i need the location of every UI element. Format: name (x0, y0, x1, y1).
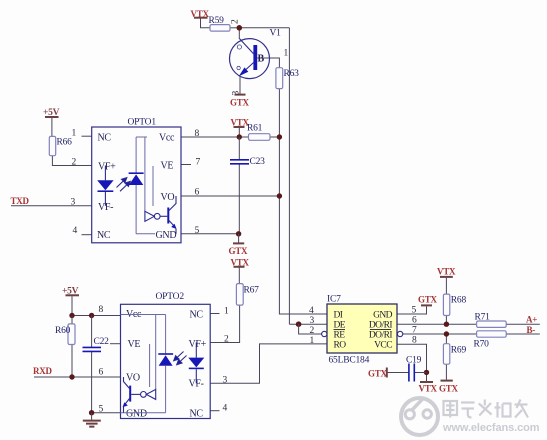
wire IC7 pin6 DO/RI to R71 (397, 323, 477, 325)
svg-text:6: 6 (195, 188, 200, 198)
wire long vertical R59-node down to IC7 DE row (288, 28, 290, 324)
svg-text:6: 6 (99, 368, 104, 378)
wire C23 top (238, 137, 240, 159)
svg-text:DO/RI: DO/RI (369, 321, 392, 331)
wire TXD to OPTO1 pin3 VF- (11, 205, 92, 207)
wire OPTO2 pin5 GND line (92, 412, 121, 414)
svg-text:7: 7 (196, 158, 201, 168)
svg-text:3: 3 (71, 198, 76, 208)
svg-text:Vcc: Vcc (159, 133, 175, 144)
wire V1 emitter to GTX rail (239, 77, 241, 94)
wire R71 right to A+ (506, 323, 540, 325)
wire R68 bottom to pin6 line (445, 316, 447, 325)
resistor R67 (236, 284, 259, 306)
svg-text:C23: C23 (250, 157, 266, 167)
svg-text:7: 7 (412, 326, 417, 336)
wire OPTO1 pin1 stub (82, 135, 92, 137)
svg-text:6: 6 (412, 316, 417, 326)
wire into IC7 pin3 DE (289, 323, 327, 325)
wire V1 base to R63 top (257, 58, 279, 68)
svg-text:GTX: GTX (230, 98, 250, 108)
svg-text:R66: R66 (57, 138, 73, 148)
svg-text:VE: VE (128, 339, 141, 350)
capacitor C23 (230, 157, 265, 167)
power rail VTX top-left (191, 9, 211, 28)
svg-text:A+: A+ (526, 315, 537, 325)
power rail GTX at C19 (368, 368, 409, 379)
power rail VTX above R68 (437, 267, 456, 295)
power rail +5V bottom-left (62, 287, 79, 316)
wire R61 right to R63 net (270, 136, 279, 138)
junction R61 right (277, 134, 282, 139)
svg-text:OPTO1: OPTO1 (128, 118, 157, 128)
wire R60 bottom to RXD line (71, 345, 73, 378)
svg-text:DI: DI (334, 311, 343, 321)
svg-text:VE: VE (161, 161, 174, 172)
wire RE branch to IC7 pin2 (299, 324, 322, 334)
OPTO2 pin numbers (99, 305, 230, 415)
wire IC7 pin8 VCC down to VTX rail (397, 344, 438, 393)
svg-text:8: 8 (412, 336, 417, 346)
svg-text:DO/RI: DO/RI (369, 331, 392, 341)
OPTO1 LED (97, 166, 113, 206)
svg-text:VTX: VTX (437, 267, 456, 277)
svg-text:5: 5 (412, 306, 417, 316)
OPTO2 LED (188, 343, 204, 384)
svg-text:NC: NC (98, 133, 112, 144)
svg-text:5: 5 (195, 226, 200, 236)
svg-text:2: 2 (72, 158, 77, 168)
resistor R69 (443, 344, 466, 365)
OPTO2 light arrows (174, 352, 187, 365)
svg-text:C19: C19 (406, 356, 422, 366)
svg-text:NC: NC (190, 310, 204, 321)
junction +5V/R60 (69, 313, 74, 318)
svg-text:VF+: VF+ (98, 162, 116, 173)
OPTO1 output buffer (145, 137, 160, 221)
junction R68/pin6 (444, 322, 449, 327)
svg-text:GTX: GTX (368, 369, 388, 379)
svg-text:RE: RE (334, 331, 346, 341)
svg-text:NC: NC (190, 409, 204, 420)
svg-text:RO: RO (334, 341, 347, 351)
svg-text:1: 1 (310, 336, 315, 346)
resistor R61 (247, 124, 270, 141)
svg-text:GTX: GTX (418, 295, 438, 305)
svg-text:8: 8 (99, 305, 104, 315)
optocoupler OPTO1 (92, 118, 181, 243)
svg-text:R68: R68 (451, 296, 467, 306)
wire +5V node to OPTO2 pin8 Vcc (72, 315, 121, 317)
svg-text:2: 2 (231, 19, 241, 24)
svg-text:4: 4 (309, 306, 314, 316)
resistor R71 (475, 313, 507, 328)
wire IC7 pin5 GND to GTX rail (397, 295, 438, 315)
svg-text:TXD: TXD (11, 196, 30, 206)
wire R70 right to B- (506, 333, 540, 335)
svg-text:B-: B- (527, 325, 536, 335)
WATERMARK (401, 398, 540, 436)
svg-text:IC7: IC7 (327, 295, 341, 305)
svg-text:R71: R71 (475, 313, 491, 323)
wire OPTO1 pin5 GND to GTX node (181, 233, 239, 235)
svg-text:GND: GND (373, 311, 393, 321)
wire VO node down and into IC7 pin4 DI (279, 196, 327, 314)
svg-text:OPTO2: OPTO2 (156, 292, 185, 302)
junction at VTX node (237, 134, 242, 139)
svg-text:R67: R67 (244, 286, 260, 296)
IC U7 65LBC184 (309, 295, 417, 366)
wire IC7 pin1 RO to OPTO2 pin3 VF- (210, 344, 327, 383)
svg-text:VCC: VCC (374, 341, 392, 351)
power rail VTX mid feeding OPTO1 Vcc node (231, 118, 250, 138)
svg-text:R61: R61 (247, 124, 263, 134)
svg-text:2: 2 (310, 326, 315, 336)
svg-text:1: 1 (224, 307, 229, 317)
wire collector drop V1 (238, 28, 240, 39)
resistor R70 (474, 331, 507, 350)
junction DE/RE tie (296, 321, 302, 327)
wire node2 to top of long vertical (239, 27, 289, 29)
OPTO1 light arrows (117, 178, 131, 192)
power rail GTX under V1 (230, 91, 250, 108)
svg-text:R70: R70 (474, 340, 490, 350)
wire R60 top (71, 316, 73, 324)
svg-text:VO: VO (161, 192, 175, 203)
OPTO1 photodiode (129, 137, 155, 234)
wire RXD to OPTO2 pin6 VO (34, 376, 121, 378)
svg-text:VF+: VF+ (189, 339, 207, 350)
capacitor C22 (83, 337, 110, 351)
wire OPTO2 pin1 stub (210, 313, 219, 315)
junction VO node (277, 193, 282, 198)
wire C23 bottom down to OPTO1 GND node (238, 164, 240, 234)
svg-text:C22: C22 (94, 337, 110, 347)
svg-text:GND: GND (126, 409, 147, 420)
wire R69 bottom to GTX rail (439, 364, 459, 393)
OPTO1 output transistor (160, 196, 176, 234)
wire R61 node down to VO node (278, 137, 280, 196)
wire OPTO1 pin6 VO to vertical net (181, 195, 279, 197)
power rail +5V top-left (43, 108, 60, 136)
wire OPTO1 pin8 Vcc to VTX node (181, 136, 239, 138)
wire C22 bottom to GND line (91, 352, 93, 413)
svg-text:R69: R69 (451, 346, 467, 356)
svg-text:VTX: VTX (419, 384, 438, 394)
svg-text:3: 3 (231, 91, 241, 96)
svg-text:GTX: GTX (439, 384, 459, 394)
wire IC7 pin7 to R70 (403, 333, 477, 335)
junction C22 top branch (89, 313, 94, 318)
svg-text:3: 3 (223, 376, 228, 386)
svg-text:RXD: RXD (33, 366, 52, 376)
OPTO1 pin numbers (71, 129, 201, 237)
svg-text:VTX: VTX (191, 9, 210, 19)
svg-text:NC: NC (97, 230, 111, 241)
svg-text:1: 1 (72, 129, 77, 139)
svg-text:65LBC184: 65LBC184 (329, 356, 370, 366)
svg-text:4: 4 (73, 226, 78, 236)
OPTO2 photodiode (121, 315, 174, 413)
wire R67 bottom to OPTO2 pin2 VF+ (210, 305, 239, 342)
wire OPTO2 pin7 VE stub (110, 343, 121, 345)
capacitor C19 (406, 356, 422, 382)
svg-text:5: 5 (99, 405, 104, 415)
junction C22/GND (89, 410, 94, 415)
svg-text:R59: R59 (209, 16, 225, 26)
resistor R66 (49, 136, 72, 155)
OPTO2 input buffer (141, 315, 156, 400)
wire C22 top drop (91, 316, 93, 348)
power rail GTX under OPTO1 pin5 (229, 234, 249, 256)
junction R69/pin7 (444, 331, 449, 336)
transistor V1 (230, 29, 289, 79)
resistor R68 (443, 294, 466, 315)
svg-text:GTX: GTX (229, 246, 249, 256)
junction RXD/R60 (69, 374, 74, 379)
wire R69 top to pin7 line (445, 334, 447, 344)
svg-text:4: 4 (223, 404, 228, 414)
svg-text:VO: VO (126, 373, 140, 384)
wire R63 bottom down to R61 node (278, 89, 280, 137)
svg-text:8: 8 (195, 129, 200, 139)
power rail VTX above R67 (231, 258, 250, 284)
wire VTX node to R61 left (239, 136, 248, 138)
svg-text:R60: R60 (55, 326, 71, 336)
wire C19 right to VCC net (415, 372, 427, 374)
svg-text:www.elecfans.com: www.elecfans.com (442, 422, 540, 434)
wire OPTO2 pin4 stub (210, 410, 219, 412)
resistor R59 (209, 16, 231, 31)
resistor R63 (276, 68, 299, 89)
ground symbol (83, 413, 101, 427)
svg-text:B: B (258, 54, 265, 65)
svg-text:R63: R63 (284, 69, 300, 79)
wire R66 bottom to OPTO1 pin2 VF+ (52, 156, 91, 166)
wire OPTO1 pin7 stub (181, 164, 191, 166)
svg-text:3: 3 (310, 316, 315, 326)
svg-text:2: 2 (224, 335, 229, 345)
junction GND node (236, 231, 241, 236)
resistor R60 (55, 324, 75, 345)
optocoupler OPTO2 (121, 292, 211, 420)
wire OPTO1 pin4 stub (82, 234, 92, 236)
svg-text:DE: DE (334, 321, 346, 331)
svg-text:V1: V1 (270, 29, 282, 39)
wire R59 right to node 2 (230, 27, 239, 29)
svg-text:1: 1 (284, 49, 289, 59)
junction node at R59/V1 collector (231, 19, 243, 31)
junction C19/VCC (424, 370, 429, 375)
OPTO2 output transistor (123, 377, 141, 413)
svg-text:GND: GND (156, 230, 177, 241)
